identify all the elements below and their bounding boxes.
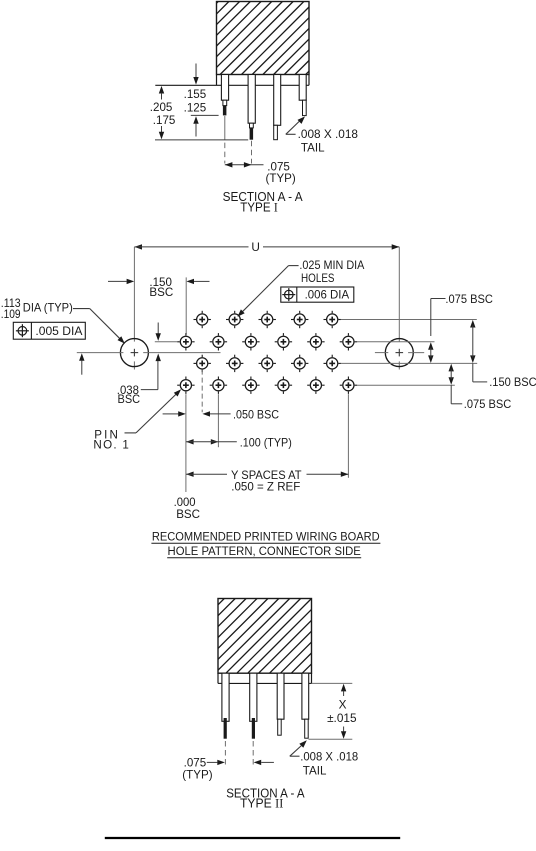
body standoff lip TYPE II [218, 673, 312, 683]
pin P3 TYPE II [277, 673, 284, 735]
svg-text:HOLES: HOLES [301, 272, 335, 285]
svg-text:BSC: BSC [176, 508, 200, 521]
dimension .100 (TYP) [186, 436, 292, 449]
body standoff lip TYPE I [155, 75, 309, 86]
svg-text:U: U [251, 240, 260, 254]
dimension .075 (TYP) TYPE I [225, 160, 296, 185]
dimension .075 BSC (rows 3-4) [449, 364, 512, 411]
pin P4 (back row, short) TYPE I [299, 75, 306, 116]
dimension .038 BSC [117, 323, 161, 407]
last column extension line [347, 394, 349, 478]
svg-text:.205: .205 [150, 101, 173, 114]
svg-text:.025 MIN DIA: .025 MIN DIA [299, 259, 364, 272]
column 3 extension line [217, 394, 219, 447]
svg-text:RECOMMENDED PRINTED WIRING BOA: RECOMMENDED PRINTED WIRING BOARD [152, 529, 380, 543]
pin P2 centerline TYPE II [252, 741, 254, 767]
pin P2 (front row, long) TYPE I [248, 75, 255, 140]
svg-text:DIA (TYP): DIA (TYP) [23, 302, 73, 315]
svg-text:.008 X .018: .008 X .018 [298, 128, 358, 141]
pin P2 TYPE II [250, 673, 257, 739]
dimension .075 (TYP) TYPE II [182, 757, 274, 782]
svg-text:.075 BSC: .075 BSC [445, 293, 493, 306]
pin P1 centerline [224, 116, 226, 164]
connector body (hatched) TYPE II [218, 599, 312, 674]
svg-text:.125: .125 [184, 102, 207, 115]
row 1 extension line [341, 319, 477, 321]
dimension .150 BSC (top left) [108, 276, 210, 334]
svg-text:.050 = Z REF: .050 = Z REF [231, 481, 300, 494]
right mounting hole horizontal centerline [375, 352, 424, 354]
svg-text:.109: .109 [1, 308, 21, 321]
extension line left mounting hole vertical centerline [133, 247, 135, 370]
left mounting hole (pin .113 dia) [120, 339, 148, 367]
connector body (hatched) TYPE I [217, 2, 310, 75]
label .025 MIN DIA HOLES [237, 259, 364, 317]
dimension .075 BSC (rows 2-3) [428, 293, 493, 363]
row 4 extension line [357, 384, 455, 386]
label .008 X .018 TAIL TYPE II [290, 740, 358, 777]
dimension X +/- .015 [309, 683, 357, 739]
pin P1 TYPE II [222, 673, 229, 739]
feature control frame .005 DIA [13, 322, 85, 339]
label .113/.109 DIA (TYP) [1, 297, 125, 343]
svg-text:.150 BSC: .150 BSC [489, 376, 536, 389]
svg-text:TAIL: TAIL [303, 764, 327, 777]
column 2 extension line (dashed) [201, 370, 203, 413]
svg-text:NO. 1: NO. 1 [93, 439, 130, 452]
dimension U [134, 240, 399, 254]
svg-text:.050 BSC: .050 BSC [233, 409, 279, 422]
svg-text:.005 DIA: .005 DIA [35, 325, 82, 338]
dimension .205/.175 [150, 86, 248, 140]
svg-text:±.015: ±.015 [327, 711, 357, 725]
hole row 4 (6 holes, pin no.1 leftmost) [177, 377, 357, 394]
dimension .155/.125 [184, 64, 219, 137]
svg-text:(TYP): (TYP) [182, 768, 212, 781]
feature control frame .006 DIA [281, 287, 354, 302]
svg-text:BSC: BSC [149, 286, 173, 299]
title SECTION A - A TYPE II [226, 785, 305, 810]
svg-text:.100 (TYP): .100 (TYP) [240, 436, 292, 449]
page bottom rule [105, 837, 400, 839]
svg-text:.155: .155 [184, 88, 207, 101]
svg-text:.006 DIA: .006 DIA [305, 289, 350, 302]
svg-text:TAIL: TAIL [301, 141, 325, 154]
pin P2 centerline [251, 141, 253, 164]
title SECTION A - A TYPE I [223, 189, 303, 215]
row 2 extension line [357, 341, 435, 343]
row 3 extension line [341, 362, 477, 364]
svg-text:HOLE PATTERN, CONNECTOR SIDE: HOLE PATTERN, CONNECTOR SIDE [168, 544, 361, 558]
svg-text:TYPE I: TYPE I [240, 200, 277, 215]
extension line right mounting hole vertical centerline [398, 247, 400, 370]
svg-text:.075 BSC: .075 BSC [464, 398, 512, 411]
label .008 X .018 TAIL TYPE I [286, 116, 358, 154]
left mounting hole horizontal centerline [77, 352, 221, 354]
label PIN NO. 1 [93, 389, 181, 452]
label .000 BSC [174, 496, 200, 521]
hole row 2 (6 holes) [177, 333, 357, 350]
svg-text:X: X [339, 698, 347, 712]
pin P3 (back row, long) TYPE I [274, 75, 281, 140]
pin P1 (front row, short) TYPE I [221, 75, 228, 116]
svg-text:.008 X .018: .008 X .018 [300, 750, 358, 763]
svg-text:(TYP): (TYP) [266, 172, 296, 185]
pin P1 centerline TYPE II [224, 741, 226, 767]
dimension .050 BSC [163, 409, 279, 422]
svg-text:.175: .175 [153, 114, 176, 127]
svg-text:TYPE II: TYPE II [240, 796, 283, 811]
caption HOLE PATTERN, CONNECTOR SIDE [167, 544, 361, 558]
pin no.1 column extension line [185, 394, 187, 492]
hole row 1 (5 holes) [194, 311, 341, 328]
right mounting hole (pin .113 dia) [385, 339, 413, 367]
pin P4 TYPE II [302, 673, 309, 738]
caption RECOMMENDED PRINTED WIRING BOARD [151, 529, 380, 543]
datum arrow at left end of centerline [79, 353, 84, 375]
svg-text:BSC: BSC [118, 393, 141, 406]
row 2 left extension line [155, 341, 178, 343]
dimension Y SPACES AT .050 = Z REF [186, 469, 348, 494]
hole row 3 (5 holes) [194, 355, 341, 372]
dimension .150 BSC (rows 1-3) [470, 320, 536, 389]
